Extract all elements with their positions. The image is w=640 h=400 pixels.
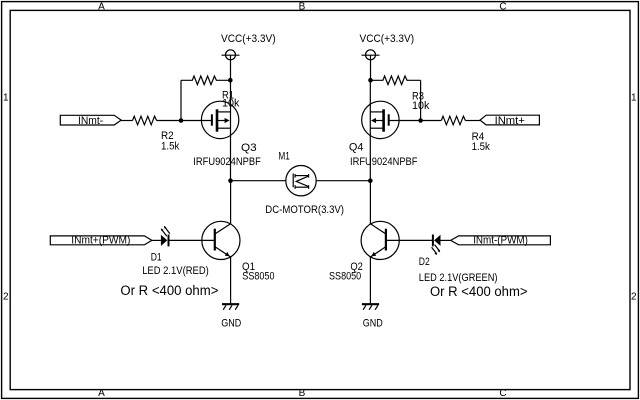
resistor R4 body bbox=[441, 116, 465, 125]
svg-text:Or R <400 ohm>: Or R <400 ohm> bbox=[430, 284, 528, 299]
resistor R3 body bbox=[371, 76, 421, 85]
node junction motor right bbox=[368, 178, 373, 183]
svg-text:IRFU9024NPBF: IRFU9024NPBF bbox=[193, 156, 261, 168]
ground GND2 bbox=[362, 304, 379, 310]
node junction VCC1/R1 bbox=[228, 78, 233, 83]
svg-text:2: 2 bbox=[3, 292, 9, 303]
resistor R1 body bbox=[181, 76, 231, 85]
svg-text:D2: D2 bbox=[419, 256, 430, 268]
wire motor right bbox=[316, 180, 370, 182]
node junction gate Q4 bbox=[418, 118, 423, 123]
svg-text:Or R <400 ohm>: Or R <400 ohm> bbox=[120, 283, 218, 298]
svg-text:10k: 10k bbox=[222, 97, 240, 109]
svg-text:C: C bbox=[499, 388, 506, 399]
svg-text:INmt+: INmt+ bbox=[495, 115, 525, 127]
svg-text:B: B bbox=[299, 388, 306, 399]
wire flag to D1 bbox=[152, 239, 161, 241]
wire R2 to Q3 gate bbox=[157, 120, 212, 122]
svg-text:GND: GND bbox=[363, 318, 383, 330]
wire flag to D2 bbox=[441, 239, 451, 241]
svg-text:Q4: Q4 bbox=[349, 141, 364, 153]
wire top rail right vertical bbox=[369, 80, 371, 181]
MOSFET Q4 bbox=[362, 101, 421, 138]
wire motor left bbox=[231, 180, 286, 182]
svg-text:1.5k: 1.5k bbox=[472, 141, 491, 153]
svg-text:10k: 10k bbox=[412, 100, 430, 112]
wire R4 to flag bbox=[465, 120, 480, 122]
NPN Q1 bbox=[202, 181, 240, 304]
wire R1 left leg down to gate node bbox=[180, 80, 182, 120]
svg-text:1: 1 bbox=[631, 93, 637, 104]
node junction motor left bbox=[228, 178, 233, 183]
svg-text:2: 2 bbox=[631, 292, 637, 303]
svg-text:C: C bbox=[499, 2, 506, 13]
input port flag INmt-(PWM) bbox=[451, 236, 551, 245]
ground GND1 bbox=[222, 304, 239, 310]
wire top rail left vertical bbox=[230, 80, 232, 181]
svg-text:Q3: Q3 bbox=[241, 142, 257, 154]
LED D2 bbox=[432, 235, 441, 256]
power port VCC2 symbol bbox=[362, 50, 380, 80]
svg-text:VCC(+3.3V): VCC(+3.3V) bbox=[360, 33, 415, 45]
svg-text:D1: D1 bbox=[151, 252, 162, 264]
svg-text:1.5k: 1.5k bbox=[161, 140, 180, 152]
input port flag INmt+(PWM) bbox=[50, 236, 152, 245]
MOSFET Q3 bbox=[201, 101, 238, 138]
svg-text:1: 1 bbox=[3, 93, 9, 104]
NPN Q2 bbox=[361, 181, 399, 304]
svg-text:DC-MOTOR(3.3V): DC-MOTOR(3.3V) bbox=[265, 204, 344, 216]
LED D1 bbox=[161, 226, 170, 247]
wire D2 to Q2 base bbox=[386, 239, 433, 241]
node junction gate Q3 bbox=[179, 118, 184, 123]
svg-text:A: A bbox=[98, 2, 105, 13]
wire D1 to Q1 base bbox=[169, 239, 215, 241]
resistor R2 body bbox=[133, 116, 157, 125]
svg-text:VCC(+3.3V): VCC(+3.3V) bbox=[221, 33, 276, 45]
input port flag INmt+ bbox=[480, 115, 539, 125]
svg-text:SS8050: SS8050 bbox=[242, 271, 274, 283]
svg-text:LED 2.1V(GREEN): LED 2.1V(GREEN) bbox=[419, 272, 498, 284]
svg-text:SS8050: SS8050 bbox=[329, 270, 361, 282]
power port VCC1 symbol bbox=[222, 50, 240, 80]
node junction VCC2/R3 bbox=[368, 78, 373, 83]
svg-text:B: B bbox=[299, 2, 306, 13]
wire R3 right leg down to gate node bbox=[420, 80, 422, 120]
svg-text:GND: GND bbox=[221, 318, 241, 330]
wire gate node to R4 bbox=[421, 120, 442, 122]
svg-text:INmt+(PWM): INmt+(PWM) bbox=[71, 235, 130, 247]
input port flag INmt- bbox=[60, 115, 121, 125]
svg-text:A: A bbox=[98, 388, 105, 399]
svg-text:M1: M1 bbox=[278, 151, 290, 163]
svg-text:IRFU9024NPBF: IRFU9024NPBF bbox=[350, 156, 418, 168]
svg-text:LED 2.1V(RED): LED 2.1V(RED) bbox=[142, 265, 209, 277]
svg-text:INmt-(PWM): INmt-(PWM) bbox=[473, 235, 528, 247]
svg-text:INmt-: INmt- bbox=[78, 115, 104, 127]
motor M1 bbox=[286, 166, 316, 196]
wire flag to R2 bbox=[121, 120, 132, 122]
